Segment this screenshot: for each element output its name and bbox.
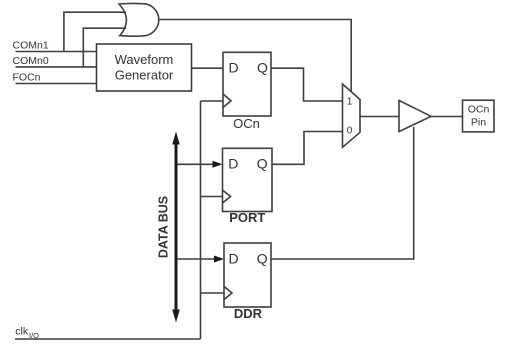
svg-text:D: D [229, 59, 239, 75]
svg-text:D: D [229, 251, 239, 267]
svg-text:DDR: DDR [234, 306, 263, 321]
svg-text:1: 1 [347, 96, 353, 107]
svg-text:Waveform: Waveform [115, 52, 174, 67]
svg-text:PORT: PORT [229, 210, 265, 225]
svg-text:Q: Q [257, 59, 268, 75]
svg-text:Q: Q [257, 155, 268, 171]
svg-text:clk: clk [15, 326, 29, 338]
svg-text:COMn1: COMn1 [13, 39, 49, 51]
svg-text:DATA BUS: DATA BUS [156, 196, 170, 258]
svg-text:0: 0 [347, 126, 353, 137]
svg-text:Pin: Pin [471, 117, 486, 129]
svg-text:OCn: OCn [468, 104, 490, 116]
svg-text:COMn0: COMn0 [13, 55, 49, 67]
svg-text:Q: Q [257, 251, 268, 267]
svg-text:I/O: I/O [29, 331, 39, 340]
svg-text:D: D [228, 155, 238, 171]
svg-text:FOCn: FOCn [13, 72, 41, 84]
svg-text:OCn: OCn [233, 116, 260, 131]
svg-text:Generator: Generator [115, 68, 174, 83]
